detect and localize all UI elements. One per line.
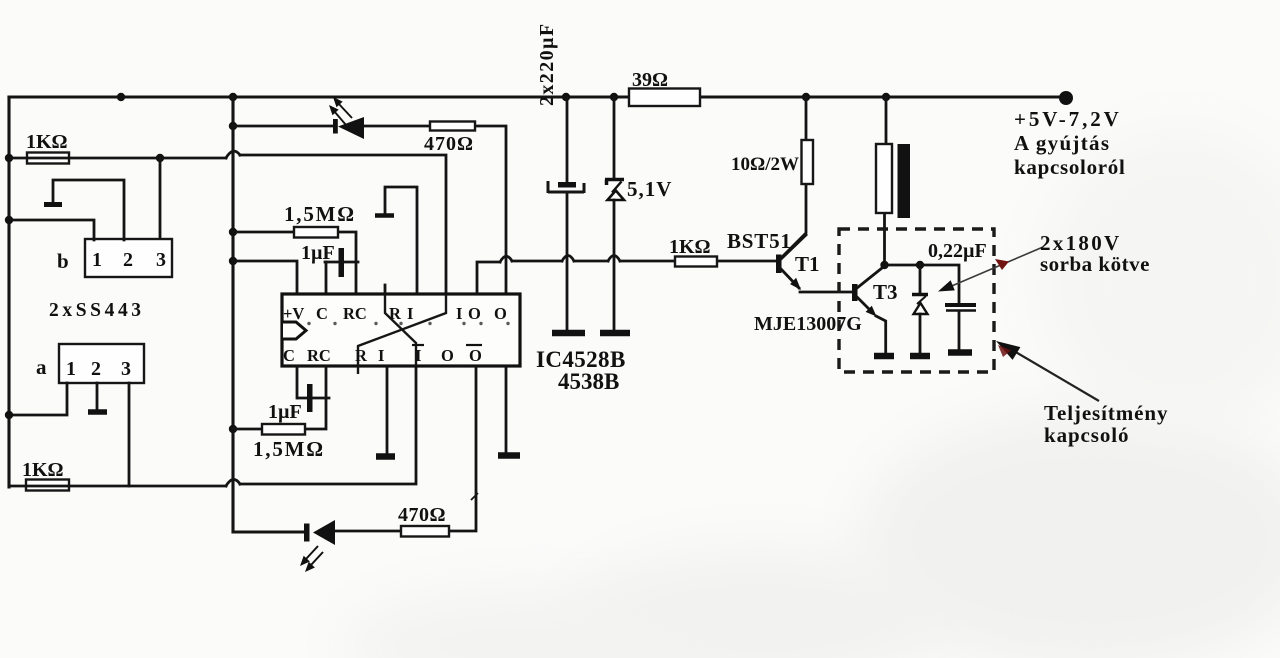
svg-text:2: 2 [91, 358, 101, 380]
resistor 1K middle [675, 257, 717, 267]
wire sensor a pin3 [128, 383, 131, 486]
svg-text:a: a [36, 355, 47, 379]
node top rail junction dots [117, 93, 125, 101]
wire IC output O to 1K [477, 262, 500, 294]
sensor box a [59, 344, 144, 383]
transistor T3 [852, 284, 858, 301]
svg-text:3: 3 [121, 358, 131, 380]
ground sensor b stub bar [44, 202, 62, 207]
resistor 470 lower [401, 526, 449, 537]
svg-text:39Ω: 39Ω [632, 69, 668, 91]
wire sensor-a output to IC [9, 485, 226, 488]
svg-text:2x220µF: 2x220µF [536, 22, 558, 106]
wire sensor b pin2 stub [53, 180, 124, 240]
dashed power switch box [839, 229, 994, 372]
wire sensor a pin1 [9, 383, 67, 415]
resistor 470 upper [430, 122, 475, 131]
ground 2x220uF [552, 330, 585, 337]
LED lower triangle [313, 520, 335, 545]
ignition coil [885, 97, 887, 265]
LED lower arrow 1 [306, 546, 318, 559]
svg-text:R: R [355, 346, 368, 365]
LED upper: wire [233, 126, 506, 294]
wire sensor a pin2 [96, 383, 99, 409]
annotation arrow 2x180V [947, 247, 1043, 288]
node supply terminal [1059, 91, 1073, 105]
svg-text:A gyújtás: A gyújtás [1014, 131, 1110, 155]
svg-text:I: I [456, 304, 462, 323]
svg-text:R: R [389, 304, 402, 323]
svg-text:1,5MΩ: 1,5MΩ [253, 437, 325, 461]
svg-text:4538B: 4538B [558, 369, 619, 394]
wire +V pin [233, 261, 297, 294]
LED lower arrow 2 [311, 552, 323, 565]
annotation arrow power switch [1014, 351, 1099, 401]
IC pin stub top R [384, 285, 387, 294]
svg-text:2: 2 [123, 249, 133, 271]
wire sensor b pin3 [159, 158, 162, 240]
svg-text:BST51: BST51 [727, 229, 792, 253]
svg-text:+5V-7,2V: +5V-7,2V [1014, 107, 1122, 131]
capacitor 1uF lower plate [307, 384, 313, 412]
ground zener 5,1V [600, 330, 630, 337]
wire sensor-b output to IC [9, 157, 226, 160]
svg-text:1KΩ: 1KΩ [22, 459, 64, 481]
transistor T1 BST51 [776, 255, 782, 274]
svg-text:RC: RC [343, 304, 367, 323]
resistor 1.5M lower [233, 366, 326, 429]
svg-text:0,22µF: 0,22µF [928, 240, 987, 262]
svg-text:I: I [378, 346, 384, 365]
svg-text:O: O [469, 346, 482, 365]
wire IC internal diagonal B [358, 294, 446, 374]
svg-text:kapcsoloról: kapcsoloról [1014, 155, 1126, 179]
svg-text:MJE13007G: MJE13007G [754, 313, 862, 335]
svg-text:b: b [57, 249, 69, 273]
zener in power box [919, 265, 922, 293]
capacitor 0,22uF [945, 303, 976, 307]
LED upper triangle [338, 117, 364, 139]
op-amp IC4528B box [282, 294, 520, 366]
svg-text:sorba kötve: sorba kötve [1040, 252, 1150, 276]
LED upper cathode bar [333, 119, 338, 134]
svg-text:1: 1 [92, 249, 102, 271]
svg-text:+V: +V [283, 304, 304, 323]
svg-text:T3: T3 [873, 280, 898, 304]
svg-text:I: I [407, 304, 413, 323]
svg-text:1,5MΩ: 1,5MΩ [284, 202, 356, 226]
LED upper arrow 2 [334, 111, 346, 125]
svg-text:1µF: 1µF [268, 401, 302, 423]
svg-text:470Ω: 470Ω [398, 504, 446, 526]
svg-text:1: 1 [66, 358, 76, 380]
LED lower cathode bar [304, 524, 310, 542]
wire top supply rail [9, 95, 1066, 98]
sensor box b [85, 239, 172, 277]
wire left vertical bus [7, 97, 10, 487]
LED upper arrow 1 [338, 103, 352, 118]
IC bottom pin C to 1uF lower [296, 366, 299, 398]
svg-text:C: C [283, 346, 295, 365]
svg-text:1KΩ: 1KΩ [26, 131, 68, 153]
ground IC pin R lower [386, 366, 389, 453]
wire sensor b pin1 [9, 220, 94, 240]
svg-text:T1: T1 [795, 252, 820, 276]
IC pin number dots [307, 322, 310, 325]
svg-text:C: C [316, 304, 328, 323]
svg-text:Teljesítmény: Teljesítmény [1044, 401, 1168, 425]
capacitor 2x220uF [566, 97, 569, 182]
wire IC pin O lower to 470 [336, 366, 476, 531]
resistor 39 [629, 89, 700, 107]
wire T3 collector node [885, 265, 960, 303]
resistor 1.5M upper [233, 232, 356, 294]
resistor 10/2W [782, 97, 806, 257]
ground IC pin O-bar lower [505, 366, 508, 452]
ground 0,22uF [948, 349, 972, 356]
ground zener box [910, 353, 930, 360]
wire IC internal diagonal A [385, 294, 416, 366]
node x233 junction dots [229, 122, 237, 130]
ground sensor a pin2 [88, 409, 107, 415]
svg-text:1KΩ: 1KΩ [669, 236, 711, 258]
svg-text:O: O [494, 304, 507, 323]
wire R-pin stub with bar [385, 187, 417, 294]
wire middle vertical bus x=233 [233, 97, 304, 532]
svg-text:3: 3 [156, 249, 166, 271]
svg-text:RC: RC [307, 346, 331, 365]
svg-text:O: O [468, 304, 481, 323]
zener 5,1V [613, 97, 616, 178]
ground R stub bar [375, 213, 394, 218]
resistor 1K upper-left [27, 153, 69, 164]
resistor 1K lower-left [26, 480, 69, 491]
svg-text:2xSS443: 2xSS443 [49, 300, 145, 321]
svg-text:470Ω: 470Ω [424, 133, 474, 155]
ground T3 emitter [874, 353, 894, 360]
svg-text:10Ω/2W: 10Ω/2W [731, 154, 799, 175]
svg-text:I: I [415, 346, 421, 365]
svg-text:5,1V: 5,1V [627, 177, 672, 201]
svg-text:O: O [441, 346, 454, 365]
svg-text:kapcsoló: kapcsoló [1044, 423, 1129, 447]
